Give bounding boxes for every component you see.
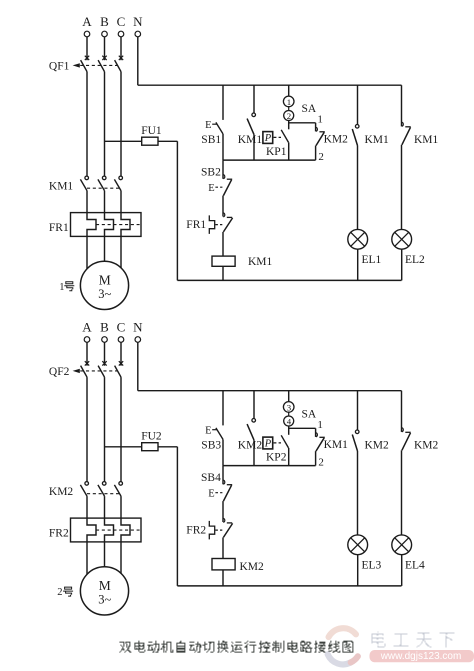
wire control top rail <box>138 390 402 392</box>
wire phase A KM1 to FR1 <box>86 191 88 213</box>
svg-text:B: B <box>100 14 109 29</box>
contactor KM1 aux NO contact (self-hold) <box>238 113 263 146</box>
svg-text:2: 2 <box>318 151 324 163</box>
motor M1 (1号 3-phase) <box>80 261 128 309</box>
lamp EL1 <box>348 229 382 265</box>
svg-text:1: 1 <box>317 114 323 126</box>
wire top rail to KM2 aux <box>253 391 255 419</box>
svg-text:FR1: FR1 <box>49 222 69 234</box>
node C (section 1) terminal <box>117 14 126 37</box>
wire control top rail <box>138 84 402 86</box>
wire SB2 to FR1 contact <box>222 196 224 217</box>
thermal relay FR1 heaters <box>49 213 141 237</box>
wire phase C FR to motor <box>120 542 122 575</box>
svg-text:KM1: KM1 <box>365 134 390 146</box>
svg-text:B: B <box>100 319 109 334</box>
wire phase A QF1 to KM1 main <box>86 72 88 177</box>
wire top rail to KM2 lamp contact <box>357 391 359 430</box>
svg-text:E: E <box>205 426 211 437</box>
svg-text:3~: 3~ <box>98 593 111 607</box>
svg-text:EL4: EL4 <box>405 559 425 571</box>
wire phase A FR to motor <box>86 542 88 575</box>
wire top rail to SB3 <box>222 391 224 426</box>
circuit breaker QF2 <box>49 361 123 378</box>
motor M2 (2号 3-phase) <box>80 567 128 615</box>
wire N terminal down to control rail <box>137 37 139 85</box>
wire control mid junction rail <box>223 465 316 467</box>
wire N terminal down to control rail <box>137 342 139 390</box>
fuse FU1 <box>141 125 162 145</box>
svg-text:SA: SA <box>302 408 317 420</box>
wire to lamp EL1 <box>357 146 359 230</box>
wire control left vertical <box>176 447 178 586</box>
contactor KM2 NC interlock contact <box>316 127 349 145</box>
fuse FU2 <box>141 430 162 450</box>
svg-text:www.dgjs123.com: www.dgjs123.com <box>380 651 462 662</box>
wire FR2 contact to coil <box>222 537 224 561</box>
node N (section 1) terminal <box>133 14 143 37</box>
wire control bottom rail <box>177 585 401 587</box>
wire phase B FR to motor <box>104 236 106 261</box>
svg-text:SB2: SB2 <box>201 167 221 179</box>
watermark logo ring <box>328 628 358 664</box>
wire SA node to interlock node 1 <box>289 122 316 124</box>
wire phase C QF2 to KM2 main <box>120 377 122 482</box>
wire phase B KM1 to FR1 <box>104 191 106 213</box>
node C (section 2) terminal <box>117 319 126 342</box>
wire top rail to SA <box>288 85 290 96</box>
contactor KM1 main contacts <box>49 176 123 192</box>
svg-text:1: 1 <box>317 419 323 431</box>
wire phase A QF2 to KM2 main <box>86 377 88 482</box>
wire phase B QF2 to KM2 main <box>104 377 106 482</box>
svg-text:SA: SA <box>302 103 317 115</box>
node B (section 1) terminal <box>100 14 109 37</box>
selector switch SA terminals 1-2 <box>283 96 316 121</box>
svg-text:FU1: FU1 <box>141 125 162 137</box>
svg-text:EL2: EL2 <box>405 254 425 266</box>
wire phase A terminal to QF2 <box>86 342 88 365</box>
svg-text:N: N <box>133 14 143 29</box>
svg-text:FU2: FU2 <box>141 430 162 442</box>
wire phase A KM2 to FR2 <box>86 496 88 518</box>
svg-text:E: E <box>208 489 214 500</box>
wire phase A FR to motor <box>86 236 88 269</box>
contactor KM2 aux NO contact (self-hold) <box>238 419 263 452</box>
contactor KM1 NO contact (lamp EL1) <box>352 125 389 146</box>
wire FU1 to control branch <box>158 140 177 142</box>
pushbutton SB2 (stop, NC) <box>201 167 232 196</box>
contactor coil KM2 <box>212 559 264 573</box>
svg-text:M: M <box>99 273 111 288</box>
wire phase A terminal to QF1 <box>86 37 88 60</box>
lamp EL4 <box>392 535 425 571</box>
node N (section 2) terminal <box>133 319 143 342</box>
wire phase B tap to FU1 <box>105 140 142 142</box>
wire top rail to KM1 aux <box>253 85 255 113</box>
wire phase C QF1 to KM1 main <box>120 72 122 177</box>
svg-text:2: 2 <box>287 111 291 121</box>
svg-text:KM1: KM1 <box>414 134 439 146</box>
wire SA to KP node <box>288 426 290 435</box>
svg-text:EL1: EL1 <box>362 254 382 266</box>
wire coil to bottom rail <box>222 570 224 586</box>
contactor KM2 NC contact (lamp EL4) <box>402 428 439 452</box>
thermal relay FR2 NC contact <box>186 518 232 539</box>
wire SA to KP node <box>288 121 290 130</box>
svg-text:KM2: KM2 <box>240 561 265 573</box>
svg-text:FR1: FR1 <box>186 219 206 231</box>
relay contact KP1 (NO) <box>263 130 289 158</box>
wire top rail to KM1 NC lamp contact <box>401 85 403 126</box>
wire lamp EL4 to bottom rail <box>401 555 403 586</box>
wire top rail to KM1 lamp contact <box>357 85 359 124</box>
node B (section 2) terminal <box>100 319 109 342</box>
lamp EL2 <box>392 229 425 265</box>
svg-text:QF1: QF1 <box>49 60 70 72</box>
svg-text:4: 4 <box>287 417 292 427</box>
pushbutton SB4 (stop, NC) <box>201 472 232 501</box>
wire phase C KM1 to FR1 <box>120 191 122 213</box>
svg-text:KM1: KM1 <box>248 256 273 268</box>
wire KM1 NC to node 2 <box>315 451 317 466</box>
wire phase C terminal to QF1 <box>120 37 122 60</box>
svg-text:EL3: EL3 <box>362 559 382 571</box>
svg-text:KM2: KM2 <box>414 439 439 451</box>
svg-text:1: 1 <box>287 97 291 107</box>
svg-text:2: 2 <box>57 587 62 598</box>
contactor KM2 main contacts <box>49 482 123 498</box>
svg-text:FR2: FR2 <box>49 528 69 540</box>
wire phase C KM2 to FR2 <box>120 496 122 518</box>
selector switch SA terminals 3-4 <box>283 402 316 427</box>
label 1号 (motor 1) <box>59 281 74 293</box>
relay contact KP2 (NO) <box>263 435 289 463</box>
svg-text:SB4: SB4 <box>201 472 221 484</box>
wire phase B FR to motor <box>104 542 106 567</box>
svg-text:KM2: KM2 <box>365 439 390 451</box>
wire phase C FR to motor <box>120 236 122 269</box>
pushbutton SB3 (start, NO) <box>201 426 223 452</box>
wire to lamp EL4 <box>401 450 403 535</box>
wire phase B KM2 to FR2 <box>104 496 106 518</box>
wire top rail to SB1 <box>222 85 224 120</box>
wire phase B tap to FU2 <box>105 446 142 448</box>
svg-text:2: 2 <box>318 456 324 468</box>
svg-text:KM2: KM2 <box>49 486 74 498</box>
svg-text:M: M <box>99 578 111 593</box>
svg-text:C: C <box>117 319 126 334</box>
svg-text:A: A <box>82 14 92 29</box>
caption 双电动机自动切换运行控制电路接线图 <box>119 641 353 653</box>
wire lamp EL1 to bottom rail <box>357 249 359 280</box>
wire lamp EL3 to bottom rail <box>357 555 359 586</box>
wire SB1 to junction rail <box>222 134 224 160</box>
contactor KM2 NO contact (lamp EL3) <box>352 430 389 451</box>
svg-text:KP2: KP2 <box>266 452 287 464</box>
wire SA node to interlock node 1 <box>289 427 316 429</box>
wire control bottom rail <box>177 279 401 281</box>
watermark 电工天下 <box>372 632 455 648</box>
label 2号 (motor 2) <box>57 587 73 599</box>
svg-text:KM2: KM2 <box>238 439 263 451</box>
node A (section 2) terminal <box>82 319 92 342</box>
wire control mid junction rail <box>223 159 316 161</box>
wire KP1 to junction rail <box>288 142 290 160</box>
svg-text:KM1: KM1 <box>324 439 349 451</box>
wire SB4 to FR2 contact <box>222 501 224 522</box>
svg-text:KP1: KP1 <box>266 146 287 158</box>
wire phase B QF1 to KM1 main <box>104 72 106 177</box>
wire SB3 to junction rail <box>222 439 224 465</box>
wire FR1 contact to coil <box>222 232 224 256</box>
wire phase B terminal to QF1 <box>104 37 106 60</box>
wire control left vertical <box>176 141 178 280</box>
thermal relay FR2 heaters <box>49 518 141 542</box>
svg-text:SB3: SB3 <box>201 439 221 451</box>
svg-text:KM2: KM2 <box>324 134 349 146</box>
wire phase B terminal to QF2 <box>104 342 106 365</box>
wire to lamp EL2 <box>401 145 403 230</box>
wire FU2 to control branch <box>158 446 177 448</box>
svg-text:A: A <box>82 319 92 334</box>
wire lamp EL2 to bottom rail <box>401 249 403 280</box>
pushbutton SB1 (start, NO) <box>201 120 223 146</box>
svg-text:SB1: SB1 <box>201 134 221 146</box>
lamp EL3 <box>348 535 382 571</box>
contactor KM1 NC interlock contact <box>316 433 349 451</box>
wire to lamp EL3 <box>357 451 359 535</box>
svg-text:3: 3 <box>287 403 292 413</box>
svg-text:E: E <box>208 183 214 194</box>
contactor coil KM1 <box>212 256 273 268</box>
wire KM2 aux to junction rail <box>253 440 255 466</box>
svg-text:E: E <box>205 120 211 131</box>
watermark band <box>370 650 474 662</box>
contactor KM1 NC contact (lamp EL2) <box>402 122 439 146</box>
wire phase C terminal to QF2 <box>120 342 122 365</box>
wire node 1 down to KM1 NC <box>315 428 317 437</box>
wire KP2 to junction rail <box>288 448 290 466</box>
wire coil to bottom rail <box>222 266 224 280</box>
svg-text:KM1: KM1 <box>238 134 263 146</box>
svg-text:1: 1 <box>59 282 64 293</box>
svg-text:P: P <box>264 133 272 144</box>
thermal relay FR1 NC contact <box>186 213 232 234</box>
node A (section 1) terminal <box>82 14 92 37</box>
wire top rail to SA <box>288 391 290 402</box>
svg-text:3~: 3~ <box>98 287 111 301</box>
wire top rail to KM2 NC lamp contact <box>401 391 403 432</box>
wire KM2 NC to node 2 <box>315 146 317 161</box>
svg-text:KM1: KM1 <box>49 181 74 193</box>
circuit breaker QF1 <box>49 56 123 73</box>
svg-text:FR2: FR2 <box>186 524 206 536</box>
wire node 1 down to KM2 NC <box>315 123 317 132</box>
svg-text:P: P <box>264 439 272 450</box>
wire junction rail to SB2 <box>222 160 224 179</box>
svg-text:N: N <box>133 319 143 334</box>
wire junction rail to SB4 <box>222 466 224 485</box>
svg-text:C: C <box>117 14 126 29</box>
wire KM1 aux to junction rail <box>253 135 255 161</box>
svg-text:QF2: QF2 <box>49 366 70 378</box>
